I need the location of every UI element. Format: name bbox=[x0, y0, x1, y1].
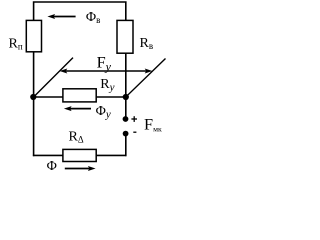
arrow Fу double-headed bbox=[60, 69, 153, 74]
wire right lower bbox=[125, 136, 127, 156]
wire middle right segment bbox=[96, 96, 126, 98]
source terminal plus dot bbox=[123, 116, 129, 122]
svg-text:Φу: Φу bbox=[96, 104, 111, 121]
resistor RΔ bbox=[63, 149, 96, 161]
diagonal right adjustable bbox=[126, 59, 166, 98]
wire left lower bbox=[33, 97, 35, 156]
resistor Rв bbox=[117, 20, 133, 53]
svg-text:Fу: Fу bbox=[97, 53, 112, 74]
wire bottom right segment bbox=[96, 154, 126, 156]
svg-text:Rв: Rв bbox=[140, 36, 154, 51]
wire middle left segment bbox=[34, 96, 64, 98]
resistor Rу bbox=[63, 89, 96, 102]
arrow Φ bottom flux bbox=[65, 166, 96, 171]
wire top loop bbox=[34, 2, 126, 21]
svg-text:Rу: Rу bbox=[100, 77, 114, 94]
svg-text:Rп: Rп bbox=[9, 37, 23, 52]
source terminal minus dot bbox=[123, 131, 129, 137]
arrow Φв flux top bbox=[47, 14, 75, 19]
diagonal left adjustable bbox=[34, 58, 73, 97]
wire right to source bbox=[125, 97, 127, 117]
svg-text:Φв: Φв bbox=[86, 10, 100, 25]
node right junction bbox=[123, 94, 129, 100]
resistor Rп bbox=[26, 20, 41, 51]
label minus bbox=[133, 131, 136, 133]
arrow Φу flux bbox=[64, 106, 91, 111]
label plus bbox=[131, 116, 137, 122]
wire left middle bbox=[33, 52, 35, 98]
wire right upper bbox=[125, 53, 127, 97]
svg-text:RΔ: RΔ bbox=[69, 129, 84, 144]
svg-text:Φ: Φ bbox=[47, 159, 57, 174]
svg-text:Fмк: Fмк bbox=[144, 114, 162, 133]
node left junction bbox=[30, 94, 36, 100]
wire bottom left segment bbox=[33, 154, 64, 156]
